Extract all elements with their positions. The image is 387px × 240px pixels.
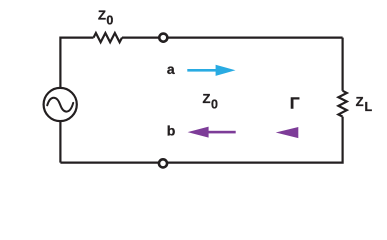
svg-text:0: 0 — [106, 14, 113, 28]
resistor ZL (load, right branch) — [338, 91, 346, 117]
svg-text:b: b — [167, 123, 176, 139]
source V1 (AC sine source circle) — [44, 88, 77, 121]
arrow b (reflected wave, purple, leftward) — [206, 131, 236, 134]
svg-text:Z: Z — [203, 91, 211, 106]
wire: left vertical upper segment + top-left corner — [60, 33, 346, 163]
svg-text:Γ: Γ — [290, 96, 300, 113]
wire: left vertical lower segment — [59, 122, 61, 163]
svg-text:Z: Z — [98, 7, 106, 22]
svg-text:L: L — [365, 100, 373, 114]
arrow a (incident wave, cyan, rightward) — [187, 69, 217, 72]
svg-text:a: a — [167, 61, 175, 77]
svg-text:0: 0 — [211, 98, 218, 112]
wire: right vertical lower segment + bottom wire — [60, 117, 342, 163]
source sine symbol — [47, 98, 73, 112]
resistor Z0 (series, top wire) — [94, 33, 122, 42]
wire: right vertical upper segment — [342, 38, 344, 91]
svg-text:Z: Z — [356, 94, 364, 109]
node: top port (open circle) — [159, 34, 167, 42]
wire: top wire from resistor to right corner — [122, 36, 343, 38]
arrow gamma (reflection marker, purple triangle, leftward) — [276, 127, 299, 138]
node: bottom port (open circle) — [159, 159, 167, 167]
